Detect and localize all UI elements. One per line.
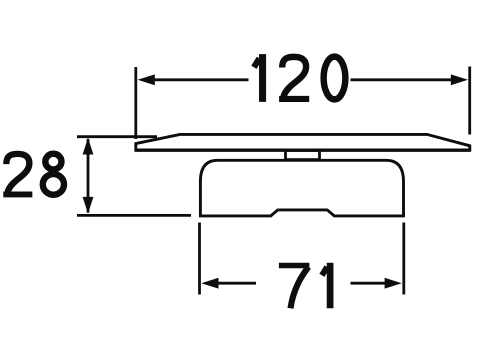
cover body outline xyxy=(200,160,403,216)
wire: 120 dimension line right segment xyxy=(351,78,455,81)
label: 71 xyxy=(279,263,330,309)
wire: 28 bottom extension line xyxy=(77,214,191,217)
wire: 71 dimension line left segment xyxy=(214,282,256,285)
wire: 71 right extension line xyxy=(402,223,405,295)
wire: 120 dimension line left segment xyxy=(151,78,249,81)
wire: 71 dimension line right segment xyxy=(351,282,390,285)
wire: 71 left extension line xyxy=(198,223,201,295)
label: 120 xyxy=(254,54,345,102)
arrowhead: 71 left xyxy=(201,278,218,289)
arrowhead: 28 down xyxy=(83,197,94,214)
arrowhead: 71 right xyxy=(385,278,402,289)
shelf plate outline xyxy=(136,134,470,150)
wire: 28 top extension line xyxy=(77,135,157,138)
clip block between plate and cover xyxy=(286,150,320,159)
arrowhead: 28 up xyxy=(83,138,94,155)
arrowhead: 120 left xyxy=(138,74,155,85)
arrowhead: 120 right xyxy=(451,74,468,85)
wire: extension line right of 120 dimension xyxy=(468,67,471,135)
wire: 28 dimension line vertical stem xyxy=(87,139,90,213)
shelf plate bottom thick edge xyxy=(135,148,471,151)
label: 28 xyxy=(3,154,64,195)
wire: extension line left of 120 dimension xyxy=(134,67,137,139)
